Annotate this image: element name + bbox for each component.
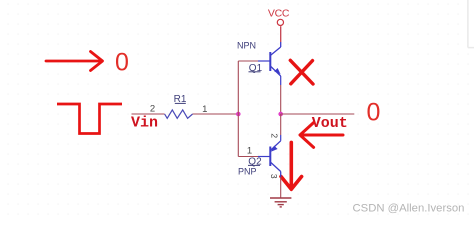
svg-text:2: 2 [150, 103, 155, 114]
svg-text:0: 0 [367, 98, 381, 126]
reference label Q1 [249, 63, 263, 74]
wire Q2 emitter up to node B [280, 114, 282, 135]
svg-text:VCC: VCC [268, 8, 290, 20]
svg-text:NPN: NPN [237, 40, 256, 50]
wire Q2 base [238, 156, 258, 158]
ground [270, 198, 291, 207]
svg-text:0: 0 [115, 48, 129, 76]
svg-text:2: 2 [270, 133, 280, 138]
reference label R1 [174, 94, 187, 105]
transistor Q2 (PNP) [270, 141, 280, 177]
wire Q1 base [238, 60, 258, 62]
svg-text:1: 1 [202, 104, 207, 115]
junction node A [236, 112, 241, 117]
annotation arrow right (red, with 0) [46, 52, 103, 71]
wire Q1 emitter to node B [280, 76, 282, 85]
svg-text:Vin: Vin [131, 115, 158, 132]
svg-text:3: 3 [269, 174, 279, 179]
frame corner (faint window edge top-right) [468, 0, 474, 48]
svg-text:CSDN @Allen.Iverson: CSDN @Allen.Iverson [353, 203, 465, 215]
wire Q1 collector to VCC [280, 26, 282, 42]
transistor Q1 (NPN) [270, 42, 280, 76]
wire Vin to R1 pin2 [132, 113, 165, 115]
svg-text:Vout: Vout [312, 115, 348, 132]
svg-text:1: 1 [247, 146, 252, 157]
reference label Q2 [248, 156, 262, 167]
wire base bus vertical [237, 61, 239, 157]
wire output [281, 113, 355, 115]
svg-text:PNP: PNP [238, 167, 257, 177]
annotation X (red cross over Q1) [290, 60, 313, 84]
wire Q2 collector to ground [280, 177, 282, 198]
power symbol VCC [268, 8, 290, 26]
annotation pulse waveform (red) [57, 104, 122, 134]
annotation arrow down (red) [281, 142, 302, 189]
wire R1 pin1 to node A [193, 113, 239, 115]
annotation arrow left (red) [300, 123, 343, 148]
resistor R1 [165, 110, 193, 118]
junction node B [278, 112, 283, 117]
